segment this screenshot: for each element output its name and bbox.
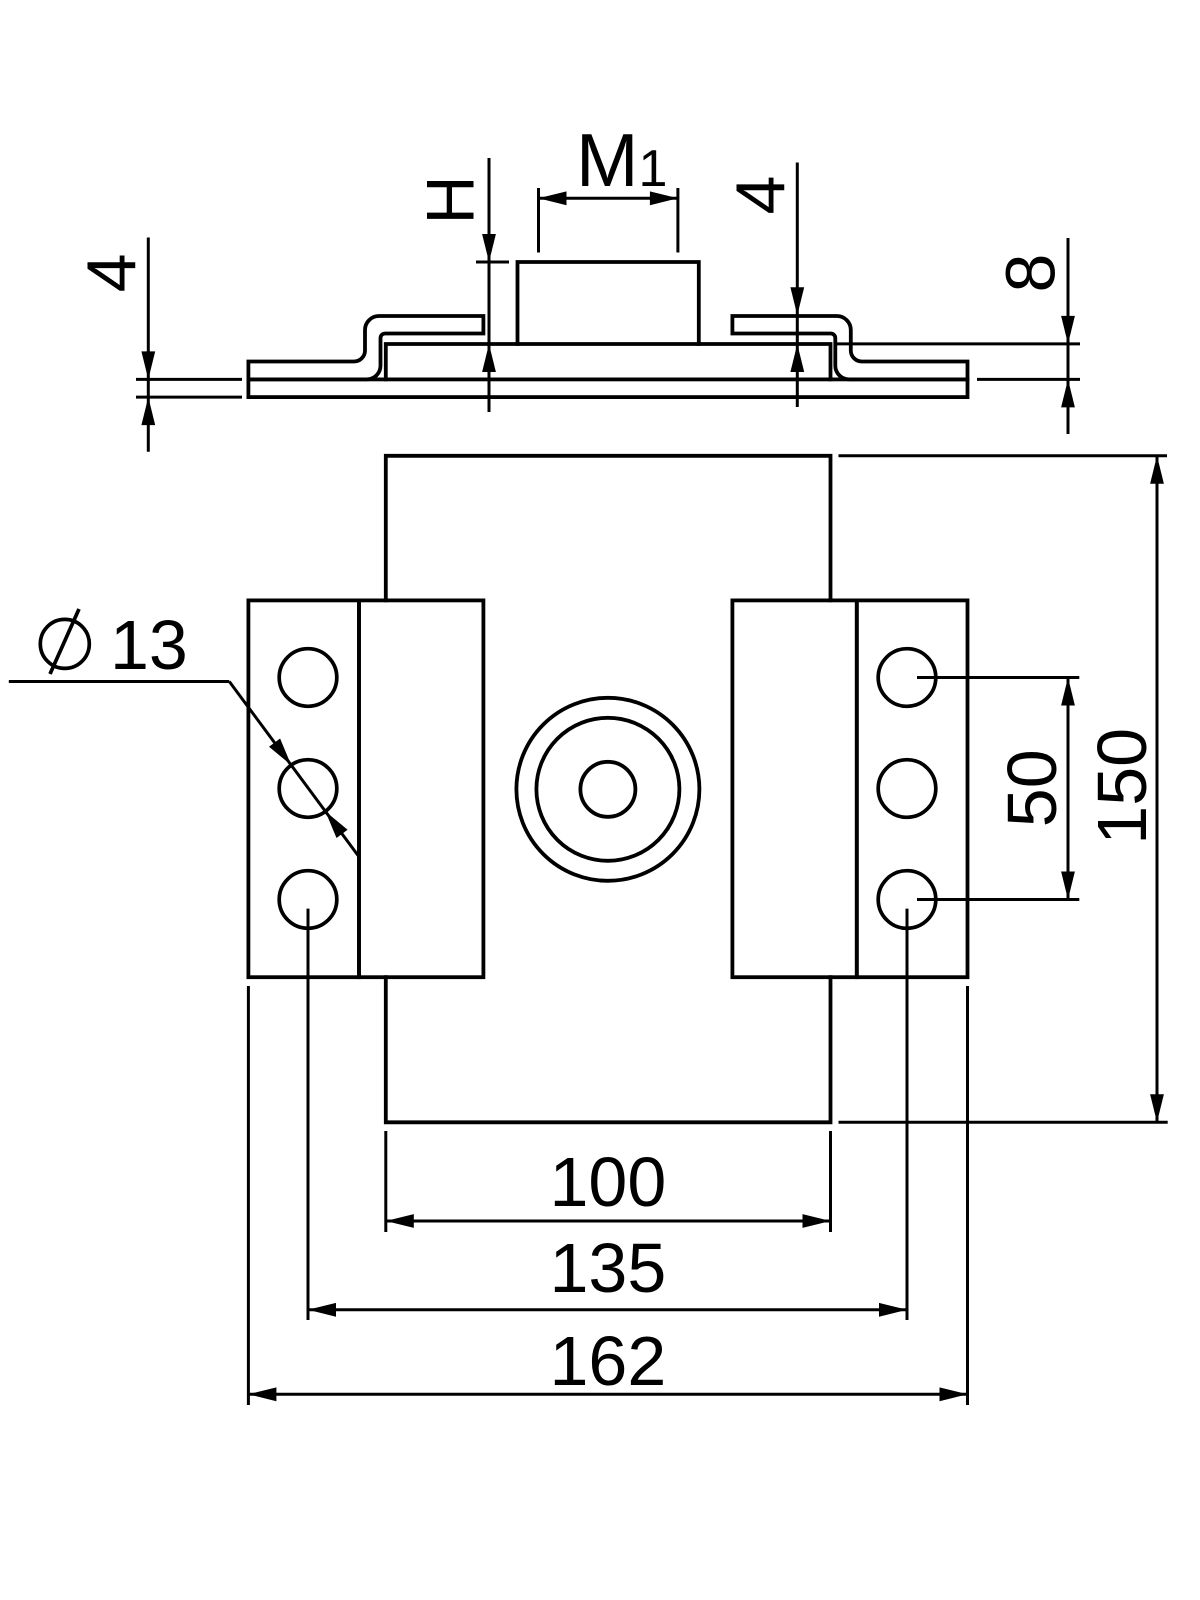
svg-text:135: 135	[550, 1229, 667, 1307]
dimension 50 (hole spacing)	[917, 678, 1079, 900]
dimension 4 (right, clip opening)	[722, 163, 805, 408]
extension line from plate right edge	[966, 986, 969, 1405]
hole left top	[279, 649, 337, 707]
dimension M1 (thread size)	[539, 118, 678, 253]
threaded boss M1 (top view, center block)	[518, 262, 699, 344]
central boss bore circle	[580, 762, 635, 817]
mounting plate (top view, middle plate)	[386, 344, 831, 379]
dimension 162 (overall width)	[248, 1322, 967, 1401]
svg-text:150: 150	[1083, 728, 1161, 845]
left bracket face	[359, 600, 483, 977]
right bracket face	[732, 600, 856, 977]
dimension 8 (plate stack height)	[834, 238, 1080, 434]
left clip bracket (top view, Z-bent strip)	[248, 316, 483, 379]
extension line from right bottom hole	[906, 909, 909, 1320]
dimension H (boss height)	[413, 158, 510, 412]
svg-text:50: 50	[993, 749, 1071, 827]
central boss outer circle	[516, 698, 699, 881]
svg-text:8: 8	[992, 254, 1070, 293]
right clip bracket (top view, Z-bent strip)	[732, 316, 967, 379]
svg-text:162: 162	[550, 1322, 667, 1400]
base plate (top view)	[248, 379, 967, 397]
extension line from square right edge	[829, 1131, 832, 1232]
svg-text:H: H	[413, 175, 489, 224]
hole right bottom	[878, 871, 936, 929]
svg-text:100: 100	[550, 1143, 667, 1221]
hole right middle	[878, 760, 936, 818]
dimension 135 (hole pitch)	[308, 1229, 907, 1317]
dimension 150 (plate height)	[839, 456, 1168, 1123]
right hole plate	[857, 600, 968, 977]
hole right top	[878, 649, 936, 707]
svg-text:4: 4	[722, 176, 800, 215]
central boss middle circle	[536, 718, 679, 861]
extension line from plate left edge	[247, 986, 250, 1405]
svg-text:4: 4	[73, 253, 151, 292]
central mounting plate (front view square)	[386, 456, 831, 1123]
hole left middle	[279, 760, 337, 818]
dimension 100 (square width)	[386, 1143, 831, 1228]
dimension 4 (left, base plate thickness)	[73, 238, 243, 452]
svg-text:13: 13	[110, 606, 188, 684]
extension line from square left edge	[384, 1131, 387, 1232]
hole left bottom	[279, 871, 337, 929]
extension line from left bottom hole	[307, 909, 310, 1320]
left hole plate	[248, 600, 359, 977]
label diameter 13 with leader	[9, 606, 359, 857]
